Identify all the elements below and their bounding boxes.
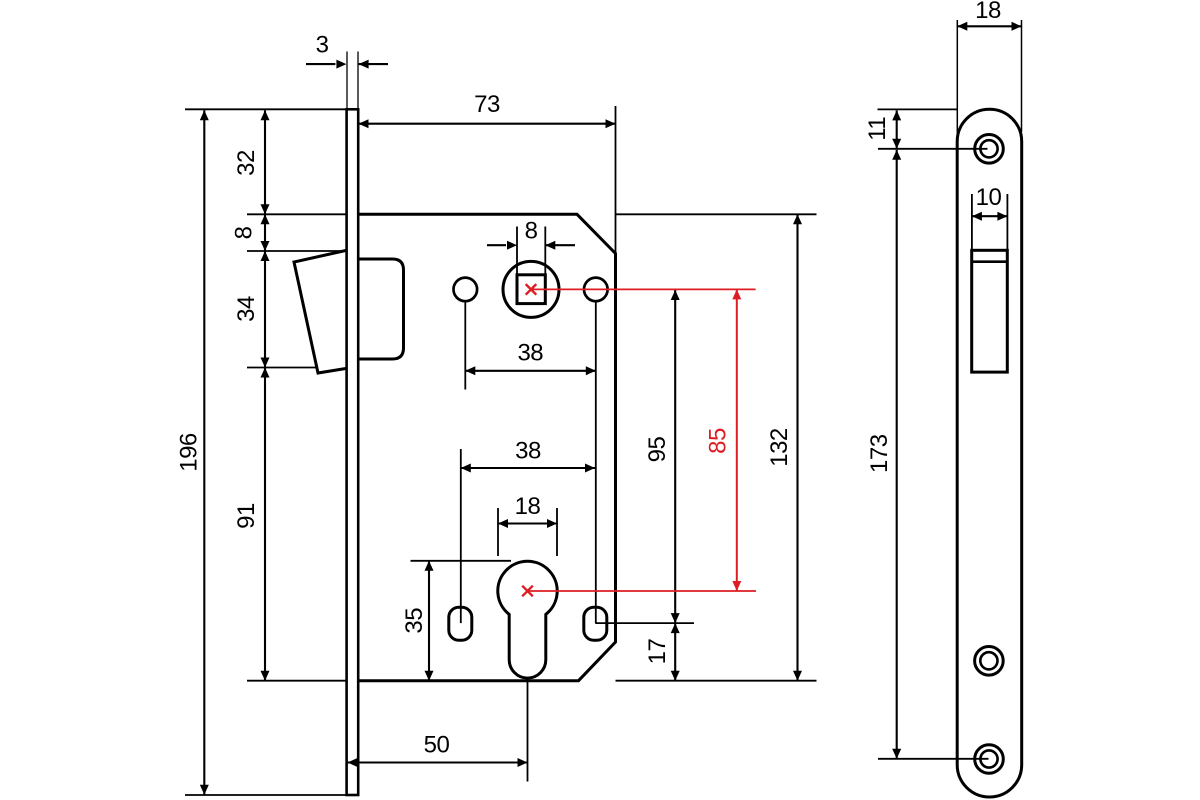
fixing hole left of spindle (454, 278, 478, 302)
svg-text:18: 18 (515, 493, 541, 520)
top screw hole inner (980, 140, 997, 157)
middle screw hole inner (980, 652, 997, 669)
fixing hole right of spindle (584, 278, 608, 302)
extension lines for dim 18 cylinder (497, 508, 499, 556)
red centre line through cylinder (528, 590, 757, 592)
dimension 173 (896, 150, 898, 759)
latch cutout rectangle (972, 250, 1008, 372)
dimension 8 square (outside arrows) (487, 244, 506, 246)
extension line above left oval slot (460, 449, 462, 623)
oval fixing slot left of cylinder (449, 607, 472, 640)
red centre mark spindle (526, 284, 537, 295)
extension line at case bottom left (247, 680, 347, 682)
extension line at oval slot centre level (595, 622, 694, 624)
svg-text:18: 18 (975, 0, 1001, 24)
dimension 38 upper (465, 370, 596, 372)
top screw hole outer (975, 135, 1004, 164)
extension line top for dim 196 (185, 108, 347, 110)
dimension 32 (264, 110, 266, 214)
svg-text:32: 32 (233, 150, 260, 176)
dimension 3 (outside arrows) (306, 63, 335, 65)
svg-text:91: 91 (233, 503, 260, 529)
svg-text:95: 95 (644, 437, 671, 463)
extension line bottom for dim 196 (185, 794, 347, 796)
euro profile cylinder hole (498, 561, 557, 678)
latch bolt head (bevelled, protruding) (294, 251, 346, 374)
spindle follower circle (503, 261, 559, 317)
dimension 17 (674, 623, 676, 681)
dimension 34 (264, 251, 266, 368)
svg-text:173: 173 (866, 434, 893, 473)
extension line below cylinder (527, 681, 529, 782)
svg-text:34: 34 (233, 296, 260, 322)
svg-text:8: 8 (231, 226, 258, 239)
svg-text:38: 38 (517, 340, 543, 367)
svg-text:17: 17 (644, 639, 671, 665)
dimension 8 left (264, 214, 266, 251)
lock case body outline with chamfered right corners (359, 214, 616, 680)
latch bolt body (inside case) (359, 259, 404, 359)
dimension 196 (203, 110, 205, 795)
svg-text:132: 132 (766, 428, 793, 467)
latch face line in cutout (972, 260, 1008, 263)
dimension 38 lower (461, 467, 595, 469)
dimension 35 (428, 561, 430, 681)
svg-text:38: 38 (515, 437, 541, 464)
middle screw hole outer (975, 647, 1004, 676)
svg-text:50: 50 (424, 732, 450, 759)
bottom screw hole outer (975, 745, 1004, 774)
dimension 50 (348, 761, 528, 763)
dimension 95 (674, 290, 676, 623)
svg-text:196: 196 (176, 433, 203, 472)
extension line below left spindle hole (464, 302, 466, 390)
extension line right for dim 73 (615, 106, 617, 256)
dimension 18 plate (957, 25, 1021, 27)
extension lines for dim 10 (971, 194, 973, 249)
extension lines for dim 3 (346, 52, 348, 109)
extension line at case top level (247, 213, 347, 215)
dimension 132 (796, 214, 798, 680)
svg-text:11: 11 (864, 117, 891, 141)
svg-text:10: 10 (976, 184, 1002, 211)
svg-text:73: 73 (474, 91, 500, 118)
extension line at latch top level (247, 250, 345, 252)
dimension 91 (264, 368, 266, 681)
oval fixing slot right of cylinder (584, 607, 607, 640)
faceplate front view (rounded ends) (957, 109, 1022, 797)
red centre line through spindle (531, 288, 756, 290)
extension line top screw centre (878, 148, 988, 150)
red centre mark cylinder (522, 586, 533, 597)
extension line bottom right for 132 (616, 680, 817, 682)
svg-text:3: 3 (316, 32, 329, 59)
extension line top right for 132 (616, 213, 817, 215)
extension line plate top left (878, 108, 958, 110)
extension line right spindle hole to oval (595, 302, 597, 624)
faceplate side view (3mm strip) (347, 109, 359, 795)
dimension 11 (896, 110, 898, 148)
extension lines for dim 8 square (516, 227, 518, 275)
dimension 73 (359, 123, 616, 125)
svg-text:35: 35 (401, 608, 428, 634)
extension line bottom screw centre (878, 758, 989, 760)
bottom screw hole inner (980, 750, 997, 767)
red dimension 85 (736, 289, 738, 591)
extension lines for dim 18 plate (956, 20, 958, 146)
svg-text:8: 8 (525, 218, 538, 245)
extension line at latch bottom level (247, 367, 318, 369)
extension line at cylinder top tangent (411, 560, 512, 562)
dimension 18 cylinder (498, 522, 557, 524)
dimension 10 (972, 215, 1008, 217)
square spindle hole 8mm (517, 275, 545, 304)
svg-text:85: 85 (704, 428, 731, 454)
